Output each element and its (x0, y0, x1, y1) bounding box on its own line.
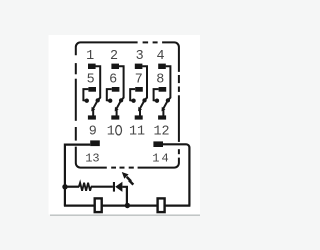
wire pin 13 down left side (65, 145, 90, 206)
wire armature to pin 12 (162, 109, 164, 116)
pole 4 contact group (153, 49, 170, 140)
fixed contact dot left (pin 6) (108, 99, 112, 103)
LED cathode bar (113, 182, 115, 192)
fixed contact dot left (pin 5) (85, 99, 89, 103)
svg-text:1: 1 (107, 125, 115, 140)
svg-text:8: 8 (156, 72, 164, 87)
fixed contact dot right (pin 4) (166, 98, 170, 102)
fixed contact dot right (pin 1) (96, 98, 100, 102)
pin 10 terminal pad (111, 115, 119, 119)
wire armature to pin 9 (92, 109, 94, 116)
pin 11 terminal pad (135, 115, 143, 119)
pin 14 terminal pad (153, 141, 163, 147)
pin 8 terminal pad (159, 87, 167, 92)
pole 2 contact group (107, 49, 124, 140)
svg-text:1: 1 (86, 49, 94, 64)
wire pin1 to fixed contact (95, 66, 100, 100)
wire pin3 to fixed contact (142, 66, 147, 100)
movable contact armature (140, 101, 145, 109)
pin 2 terminal pad (111, 64, 119, 69)
wire pin 14 down right side (163, 144, 189, 205)
wire pin7 to fixed contact (130, 89, 135, 101)
svg-text:3: 3 (136, 49, 144, 64)
pole 1 contact group (83, 49, 100, 140)
wire resistor to LED (91, 186, 113, 188)
node junction bottom center (125, 203, 130, 208)
fixed contact dot left (pin 7) (131, 99, 135, 103)
movable contact armature (116, 101, 121, 109)
LED indicator arrow shaft dash 2 (129, 180, 133, 184)
fixed contact dot right (pin 2) (119, 98, 123, 102)
LED indicator arrow head (122, 172, 129, 179)
svg-text:13: 13 (85, 152, 99, 166)
svg-text:11: 11 (129, 125, 145, 140)
svg-text:7: 7 (135, 72, 143, 87)
armature arrowhead (91, 107, 95, 112)
wire pin5 to fixed contact (83, 89, 88, 101)
armature arrowhead (162, 107, 166, 112)
wire pin8 to fixed contact (154, 89, 159, 101)
wire pin4 to fixed contact (166, 66, 171, 100)
pin 1 terminal pad (88, 64, 96, 69)
wire armature to pin 10 (116, 109, 118, 116)
pin 12 terminal pad (158, 115, 166, 119)
wire armature to pin 11 (139, 109, 141, 116)
bottom wire (64, 204, 190, 206)
svg-text:12: 12 (153, 125, 169, 140)
node junction left (62, 184, 67, 189)
pin 6 terminal pad (112, 87, 120, 92)
svg-text:9: 9 (89, 125, 97, 140)
resistor R (79, 183, 91, 191)
pin 4 terminal pad (158, 64, 166, 69)
armature arrowhead (138, 107, 142, 112)
coil terminal box right (158, 198, 165, 212)
pin 9 terminal pad (88, 115, 96, 119)
wire pin6 to fixed contact (107, 89, 112, 101)
coil terminal box left (95, 198, 102, 212)
LED indicator arrow shaft dash 1 (127, 177, 131, 181)
svg-text:2: 2 (110, 49, 118, 64)
pole 3 contact group (129, 49, 147, 140)
svg-text:6: 6 (109, 72, 117, 87)
wire junction to resistor (65, 186, 79, 188)
fixed contact dot left (pin 8) (155, 99, 159, 103)
LED triangle (115, 182, 122, 192)
svg-text:4: 4 (156, 49, 164, 64)
armature arrowhead (115, 107, 119, 112)
wire pin2 to fixed contact (119, 66, 124, 100)
pin 3 terminal pad (135, 64, 143, 69)
svg-text:1: 1 (152, 152, 159, 166)
movable contact armature (93, 101, 98, 109)
svg-text:4: 4 (161, 152, 168, 166)
svg-text:5: 5 (87, 72, 95, 87)
wire LED to bottom node (122, 187, 127, 206)
relay outline dashed enclosure (76, 42, 179, 167)
pin 13 terminal pad (90, 140, 100, 146)
pin 7 terminal pad (135, 87, 143, 92)
fixed contact dot right (pin 3) (142, 98, 146, 102)
pin 5 terminal pad (88, 87, 96, 92)
movable contact armature (163, 101, 168, 109)
